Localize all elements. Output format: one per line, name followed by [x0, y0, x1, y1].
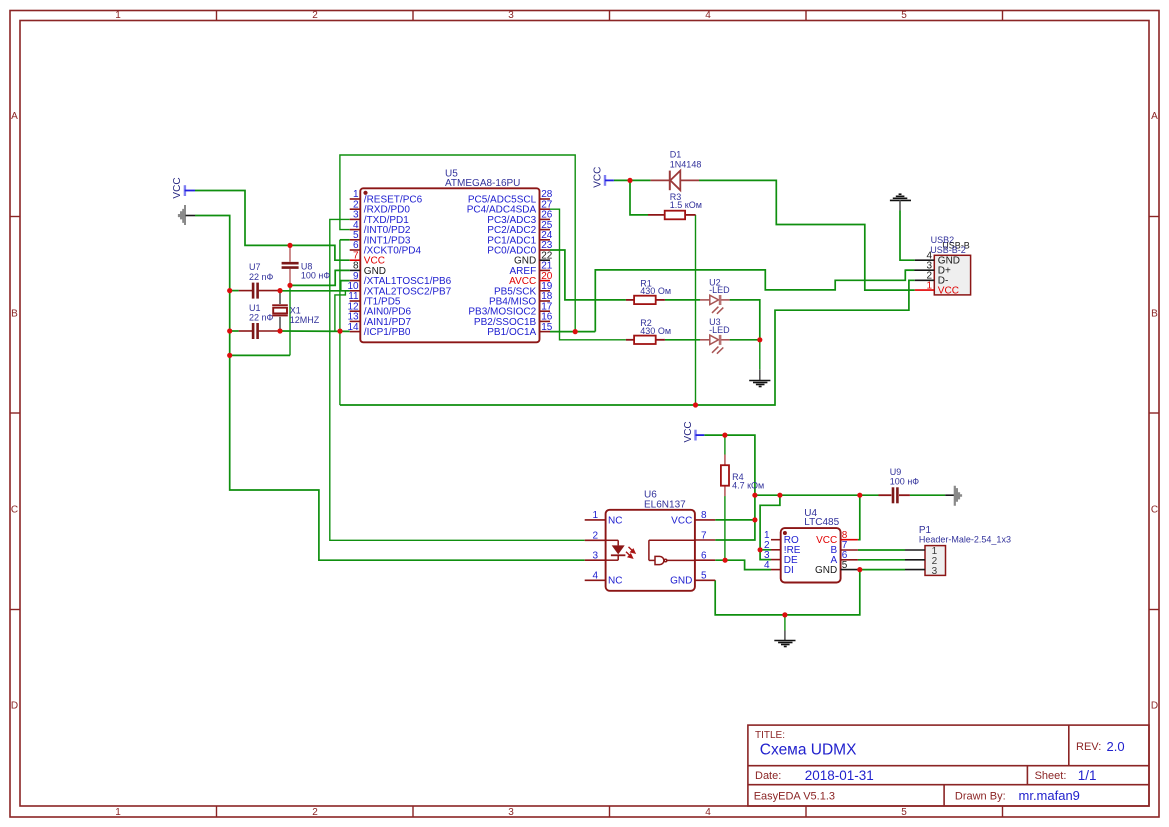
USB pin numbers	[926, 250, 932, 291]
svg-text:5: 5	[901, 807, 907, 818]
P1 pin numbers	[932, 546, 938, 577]
ground symbol near USB inverted	[890, 194, 911, 210]
svg-text:4: 4	[705, 807, 711, 818]
wire U5 pin9 jog	[341, 281, 350, 291]
svg-text:3: 3	[932, 566, 938, 577]
svg-text:100 нФ: 100 нФ	[890, 477, 919, 487]
svg-text:1.5 кОм: 1.5 кОм	[670, 200, 702, 210]
svg-text:VCC: VCC	[592, 167, 603, 188]
P1 pin lines	[905, 550, 925, 570]
wire VCC2 rail to U6 pin7	[704, 435, 755, 540]
svg-text:5: 5	[842, 560, 848, 571]
VCC symbol top-left	[172, 177, 195, 198]
junction XTAL2 node U1-X1	[277, 328, 282, 333]
gray net arrow right	[945, 486, 962, 506]
wire ground net U6 pin5 to U4 pin5	[715, 570, 860, 615]
U6 internal gate	[649, 540, 695, 564]
frame column numbers bottom	[115, 807, 907, 818]
USB connector USB2 body	[930, 235, 970, 295]
USB pin labels	[938, 256, 960, 297]
svg-text:B: B	[11, 309, 18, 320]
svg-text:D: D	[1151, 701, 1158, 712]
frame row letters left	[11, 111, 18, 712]
LED U2	[700, 277, 730, 314]
junction R4 top VCC node	[722, 433, 727, 438]
svg-text:VCC: VCC	[938, 286, 959, 297]
wire dotC down to U4 pin8	[858, 495, 860, 540]
U5 left pin labels	[364, 195, 452, 339]
frame column numbers top	[115, 10, 907, 21]
svg-text:REV:: REV:	[1076, 741, 1101, 753]
svg-text:VCC: VCC	[683, 421, 694, 442]
U5 left pin lines	[350, 199, 361, 332]
junction D- net at pin14 row	[337, 329, 342, 334]
capacitor U7 22nF	[239, 262, 280, 298]
wire dotB to U4 pin2 pin3	[760, 495, 780, 559]
svg-text:USB-B-2: USB-B-2	[930, 245, 966, 255]
wire ground stem under U4	[784, 615, 786, 631]
svg-text:TITLE:: TITLE:	[755, 730, 785, 741]
junction GND rail at U7	[227, 288, 232, 293]
U6 pin lines	[585, 520, 716, 580]
U4 pin labels	[784, 535, 838, 576]
wire U1 right to U5 pin14	[280, 330, 350, 332]
wire U6 pin8 row	[715, 519, 755, 521]
svg-text:7: 7	[701, 530, 707, 541]
svg-text:1: 1	[115, 807, 121, 818]
svg-text:4.7 кОм: 4.7 кОм	[732, 480, 764, 490]
svg-text:U1: U1	[249, 303, 261, 313]
U5 right pin lines	[540, 199, 551, 332]
wire R4 bottom to U6 pin6 row	[724, 496, 726, 560]
U4 pin lines	[771, 540, 858, 570]
svg-text:2: 2	[312, 807, 318, 818]
resistor R2 430 Om	[626, 318, 671, 344]
wire R3 right down to D- net	[695, 215, 697, 405]
wire D+ top route pin4 to pin15	[340, 155, 575, 332]
junction LED cathode node	[757, 337, 762, 342]
wire U5 pin23 to R1	[550, 250, 626, 300]
svg-text:2: 2	[592, 530, 598, 541]
title block	[748, 725, 1149, 806]
U6 internal LED	[606, 540, 626, 560]
junction VCC row C	[857, 493, 862, 498]
ground symbol under U4	[774, 631, 795, 647]
optocoupler U6 EL6N137 body	[606, 490, 695, 591]
U5 right pin numbers	[541, 189, 553, 333]
VCC symbol near D1	[592, 167, 614, 188]
wire VCC1 to U5 pin7	[195, 191, 350, 261]
svg-text:D1: D1	[670, 150, 682, 160]
svg-text:X1: X1	[290, 305, 301, 315]
junction U4 pin5 GND node	[857, 567, 862, 572]
junction U8 top node	[287, 243, 292, 248]
svg-text:A: A	[11, 111, 18, 122]
resistor R4 4.7 kOm vertical	[721, 455, 764, 497]
wire U1 row left	[230, 330, 239, 332]
svg-text:C: C	[11, 505, 18, 516]
op-amp U5 ATMEGA8-16PU body	[360, 169, 539, 343]
svg-text:VCC: VCC	[172, 177, 183, 198]
wire U7 right to U5 pin10	[280, 290, 350, 292]
svg-text:4: 4	[764, 560, 770, 571]
svg-text:100 нФ: 100 нФ	[301, 270, 330, 280]
svg-text:12MHZ: 12MHZ	[290, 315, 320, 325]
junction D+ net at pin15 row	[573, 329, 578, 334]
wire VCC row to gray arrow	[755, 494, 879, 496]
svg-text:1: 1	[592, 510, 598, 521]
svg-text:22 nФ: 22 nФ	[249, 272, 274, 282]
wire U6 pin6 to U4 DI	[715, 560, 771, 569]
svg-text:5: 5	[901, 10, 907, 21]
svg-text:3: 3	[508, 10, 514, 21]
svg-text:PB1/OC1A: PB1/OC1A	[487, 327, 536, 338]
svg-text:430 Ом: 430 Ом	[640, 286, 671, 296]
junction R4 bottom DI node	[723, 558, 728, 563]
header P1 body	[919, 525, 1011, 576]
svg-text:D: D	[11, 701, 18, 712]
svg-text:/ICP1/PB0: /ICP1/PB0	[364, 327, 411, 338]
svg-text:1: 1	[926, 280, 932, 291]
svg-text:4: 4	[705, 10, 711, 21]
svg-text:ATMEGA8-16PU: ATMEGA8-16PU	[445, 178, 520, 189]
junction U4 pin2 node	[758, 547, 763, 552]
svg-text:430 Ом: 430 Ом	[640, 326, 671, 336]
svg-text:EasyEDA V5.1.3: EasyEDA V5.1.3	[754, 791, 835, 803]
wire U2 cathode down to U3 row	[730, 300, 760, 340]
wire U4 B to P1 pin1	[858, 549, 905, 551]
svg-text:Drawn By:: Drawn By:	[955, 791, 1006, 803]
svg-text:2018-01-31: 2018-01-31	[805, 768, 874, 783]
wire rail branch y355	[230, 354, 290, 356]
U5 right pin labels	[467, 195, 537, 339]
svg-text:4: 4	[592, 570, 598, 581]
svg-text:2: 2	[312, 10, 318, 21]
VCC symbol bottom	[683, 421, 705, 442]
svg-text:-LED: -LED	[709, 325, 730, 335]
wire U5 pin5 stub	[340, 239, 350, 241]
wire R4 top	[724, 435, 726, 454]
diode D1 1N4148	[651, 150, 702, 191]
frame row letters right	[1151, 111, 1158, 712]
svg-text:Header-Male-2.54_1x3: Header-Male-2.54_1x3	[919, 535, 1011, 545]
wire U5 pin27 to R2	[550, 209, 626, 340]
wire U4 pin2 stub	[760, 549, 771, 551]
svg-text:A: A	[1151, 111, 1158, 122]
U5 left pin numbers	[347, 189, 359, 333]
wire GND-arrow rail to U6 pin3	[195, 216, 585, 561]
svg-text:mr.mafan9: mr.mafan9	[1019, 788, 1080, 803]
crystal X1 12MHZ	[272, 291, 320, 331]
svg-text:15: 15	[541, 322, 553, 333]
wire D1 to USB pin1	[699, 180, 915, 290]
svg-text:3: 3	[592, 550, 598, 561]
svg-text:EL6N137: EL6N137	[644, 499, 686, 510]
svg-text:GND: GND	[670, 576, 692, 587]
frame row ticks right	[1149, 217, 1159, 610]
ground symbol under LEDs	[749, 370, 770, 387]
wire VCC junction down to R3	[630, 180, 648, 215]
svg-text:3: 3	[508, 807, 514, 818]
svg-text:1/1: 1/1	[1078, 768, 1097, 783]
wire U9 right to arrow	[910, 494, 945, 496]
LED U3	[700, 317, 730, 354]
wire USB ground stem	[900, 211, 915, 261]
wire U4 A to P1 pin2	[858, 559, 905, 561]
svg-text:Sheet:: Sheet:	[1035, 770, 1067, 782]
wire U5 pin15 row	[550, 331, 596, 333]
svg-text:6: 6	[701, 550, 707, 561]
title block texts	[754, 730, 1102, 803]
resistor R1 430 Om	[626, 278, 671, 304]
svg-text:U7: U7	[249, 262, 261, 272]
wire U7 row left	[230, 290, 239, 292]
frame column ticks bottom	[217, 806, 1003, 817]
junction GND rail corner	[227, 353, 232, 358]
svg-text:VCC: VCC	[671, 515, 692, 526]
wire U3 cathode to junction	[730, 339, 760, 341]
U6 pin numbers	[592, 510, 707, 581]
svg-text:Схема UDMX: Схема UDMX	[760, 742, 857, 759]
svg-text:-LED: -LED	[709, 285, 730, 295]
wire R1 to LED U2	[665, 299, 700, 301]
frame column ticks top	[217, 11, 1003, 21]
USB pin lines	[914, 260, 934, 290]
wire D- net vertical from pin5	[339, 240, 341, 405]
capacitor U9 100nF	[879, 467, 920, 504]
junction GND stem node	[782, 612, 787, 617]
junction VCC-D1 node	[627, 178, 632, 183]
junction VCC row A	[752, 493, 757, 498]
frame row ticks left	[10, 217, 20, 610]
resistor R3 1.5 kOm	[648, 192, 702, 220]
transceiver U4 LTC485 body	[781, 508, 841, 583]
svg-text:22 nФ: 22 nФ	[249, 313, 274, 323]
svg-text:Date:: Date:	[755, 770, 781, 782]
wire VCC3 to D1	[614, 179, 651, 181]
junction VCC row B	[777, 493, 782, 498]
svg-text:1: 1	[115, 10, 121, 21]
wire U8 bottom to U5 pin8	[290, 270, 350, 285]
svg-text:U9: U9	[890, 467, 902, 477]
svg-text:1N4148: 1N4148	[670, 159, 702, 169]
junction R3 to D- net	[693, 402, 698, 407]
svg-text:B: B	[1151, 309, 1158, 320]
svg-text:8: 8	[701, 510, 707, 521]
junction U8 bottom node	[287, 283, 292, 288]
svg-text:GND: GND	[815, 565, 837, 576]
svg-text:14: 14	[347, 322, 359, 333]
U4 pin numbers	[764, 530, 848, 571]
junction GND rail at U1	[227, 328, 232, 333]
svg-text:5: 5	[701, 570, 707, 581]
wire D+ net to USB pin3	[595, 270, 914, 332]
svg-text:C: C	[1151, 505, 1158, 516]
svg-text:2.0: 2.0	[1107, 739, 1125, 754]
wire R2 to LED U3	[665, 339, 700, 341]
gray net arrow left	[178, 205, 195, 225]
capacitor U8 100nF	[282, 245, 331, 285]
junction U6 pin8 node	[752, 517, 757, 522]
U6 internal LED arrows	[626, 547, 635, 558]
junction XTAL1 node U7-X1	[277, 288, 282, 293]
svg-text:NC: NC	[608, 515, 622, 526]
svg-text:DI: DI	[784, 565, 794, 576]
wire D- net to USB pin2	[340, 280, 915, 405]
wire USB pin3 stub	[905, 269, 914, 271]
U6 pin labels	[608, 515, 692, 586]
wire U8 bottom to GND rail	[289, 285, 291, 355]
wire U5 pin3 to U6 pin2	[330, 219, 585, 540]
svg-text:NC: NC	[608, 576, 622, 587]
wire U5 pin10 staircase	[335, 291, 350, 331]
wire U4 GND to P1 pin3	[858, 569, 905, 571]
capacitor U1 22nF	[239, 303, 280, 339]
svg-text:LTC485: LTC485	[804, 517, 839, 528]
wire junction down to LED ground	[759, 340, 761, 370]
